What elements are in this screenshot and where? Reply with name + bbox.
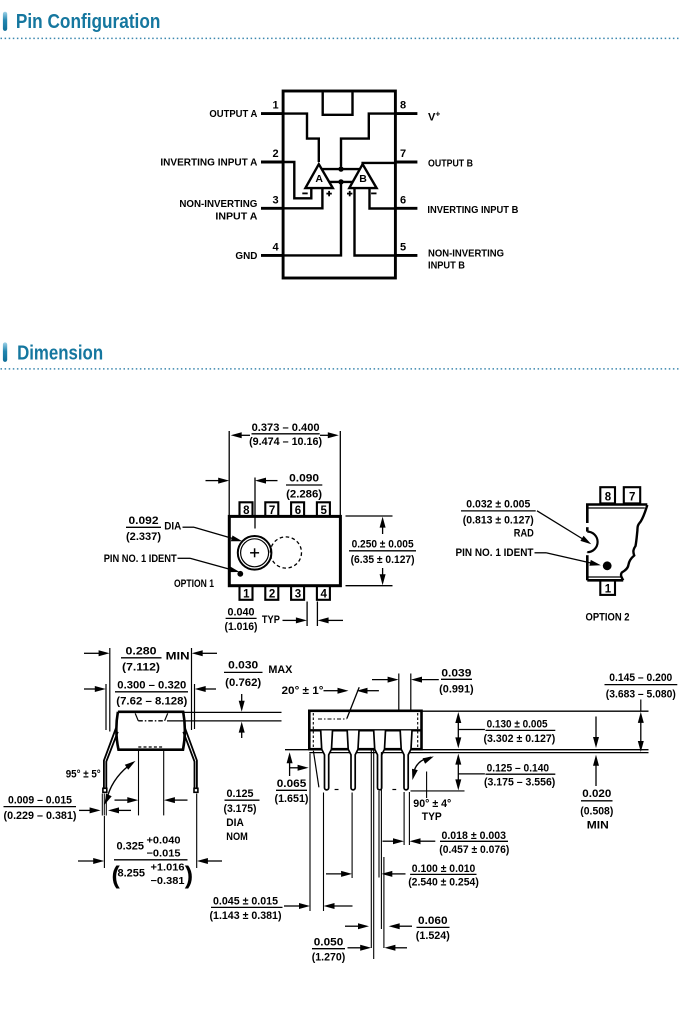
svg-text:A: A	[315, 173, 323, 185]
svg-text:−0.381: −0.381	[151, 876, 185, 887]
svg-text:Pin Configuration: Pin Configuration	[16, 10, 161, 33]
svg-text:7: 7	[629, 491, 635, 503]
svg-text:PIN NO. 1 IDENT: PIN NO. 1 IDENT	[104, 553, 177, 565]
svg-text:B: B	[359, 173, 367, 185]
svg-text:(1.524): (1.524)	[416, 930, 450, 942]
svg-text:GND: GND	[235, 251, 257, 262]
svg-text:DIA: DIA	[226, 817, 244, 829]
svg-text:0.009 – 0.015: 0.009 – 0.015	[8, 795, 72, 807]
svg-text:3: 3	[295, 589, 301, 601]
svg-text:Dimension: Dimension	[17, 342, 103, 365]
svg-text:7: 7	[400, 148, 406, 160]
svg-text:(3.175 – 3.556): (3.175 – 3.556)	[484, 776, 556, 788]
svg-text:DIA: DIA	[164, 521, 181, 533]
svg-text:+0.040: +0.040	[147, 836, 181, 847]
svg-text:V+: V+	[428, 109, 440, 124]
svg-text:2: 2	[269, 589, 275, 601]
svg-text:(2.540 ± 0.254): (2.540 ± 0.254)	[408, 877, 479, 889]
svg-text:(1.143 ± 0.381): (1.143 ± 0.381)	[210, 910, 282, 922]
svg-text:−0.015: −0.015	[147, 849, 181, 860]
svg-text:MIN: MIN	[587, 820, 609, 832]
svg-text:MAX: MAX	[268, 664, 293, 676]
svg-text:0.090: 0.090	[289, 472, 319, 484]
svg-text:TYP: TYP	[422, 811, 442, 823]
svg-text:0.039: 0.039	[441, 668, 471, 680]
svg-text:(0.762): (0.762)	[225, 677, 261, 689]
svg-text:1: 1	[243, 589, 250, 601]
svg-text:0.125: 0.125	[227, 788, 254, 800]
svg-text:INPUT A: INPUT A	[215, 211, 258, 222]
svg-text:0.130 ± 0.005: 0.130 ± 0.005	[487, 718, 548, 730]
svg-text:0.373 – 0.400: 0.373 – 0.400	[252, 422, 320, 434]
svg-text:OPTION 1: OPTION 1	[174, 578, 214, 590]
svg-text:+1.016: +1.016	[151, 863, 185, 874]
svg-text:(3.302 ± 0.127): (3.302 ± 0.127)	[484, 733, 556, 745]
svg-text:0.018 ± 0.003: 0.018 ± 0.003	[442, 830, 507, 842]
svg-text:90° ± 4°: 90° ± 4°	[413, 798, 451, 810]
svg-text:(0.991): (0.991)	[439, 683, 474, 695]
svg-text:(2.286): (2.286)	[286, 489, 322, 501]
svg-text:NOM: NOM	[226, 831, 248, 843]
svg-text:8: 8	[605, 491, 612, 503]
svg-text:0.145 – 0.200: 0.145 – 0.200	[609, 672, 672, 684]
svg-text:(3.683 – 5.080): (3.683 – 5.080)	[606, 689, 676, 701]
svg-text:(0.813 ± 0.127): (0.813 ± 0.127)	[463, 515, 534, 527]
svg-text:1: 1	[605, 583, 612, 595]
svg-text:(7.112): (7.112)	[122, 662, 160, 674]
svg-text:0.032 ± 0.005: 0.032 ± 0.005	[466, 499, 530, 511]
svg-text:INPUT B: INPUT B	[428, 261, 465, 272]
svg-text:(1.651): (1.651)	[275, 793, 309, 805]
svg-text:(0.457 ± 0.076): (0.457 ± 0.076)	[439, 844, 509, 856]
svg-text:7: 7	[269, 505, 275, 517]
svg-text:INVERTING INPUT A: INVERTING INPUT A	[160, 158, 258, 169]
svg-text:0.100 ± 0.010: 0.100 ± 0.010	[412, 863, 476, 875]
svg-text:): )	[185, 862, 193, 890]
svg-text:6: 6	[295, 505, 301, 517]
svg-text:0.300 – 0.320: 0.300 – 0.320	[117, 679, 186, 691]
svg-text:8.255: 8.255	[118, 868, 146, 880]
svg-text:0.065: 0.065	[277, 778, 307, 790]
svg-text:6: 6	[400, 194, 406, 206]
svg-text:2: 2	[272, 148, 278, 160]
svg-text:NON-INVERTING: NON-INVERTING	[428, 248, 504, 259]
svg-text:(7.62 – 8.128): (7.62 – 8.128)	[116, 695, 187, 707]
svg-text:PIN NO. 1 IDENT: PIN NO. 1 IDENT	[456, 547, 534, 559]
svg-text:(3.175): (3.175)	[224, 803, 257, 815]
svg-text:0.250 ± 0.005: 0.250 ± 0.005	[352, 539, 414, 551]
svg-text:5: 5	[400, 241, 406, 253]
svg-text:0.040: 0.040	[228, 607, 255, 619]
svg-text:0.045 ± 0.015: 0.045 ± 0.015	[213, 895, 278, 907]
svg-text:5: 5	[320, 505, 327, 517]
svg-text:OUTPUT A: OUTPUT A	[209, 109, 258, 120]
svg-text:NON-INVERTING: NON-INVERTING	[179, 199, 257, 210]
svg-text:(1.270): (1.270)	[312, 951, 346, 963]
svg-text:8: 8	[243, 505, 250, 517]
svg-text:20° ± 1°: 20° ± 1°	[282, 685, 324, 697]
svg-text:(6.35 ± 0.127): (6.35 ± 0.127)	[351, 554, 415, 566]
svg-text:INVERTING INPUT B: INVERTING INPUT B	[427, 205, 518, 216]
svg-text:3: 3	[272, 194, 278, 206]
svg-text:0.325: 0.325	[117, 841, 145, 853]
svg-text:(0.508): (0.508)	[580, 806, 613, 818]
svg-text:95° ± 5°: 95° ± 5°	[66, 769, 101, 781]
svg-text:OUTPUT B: OUTPUT B	[428, 159, 473, 170]
svg-text:(1.016): (1.016)	[225, 621, 258, 633]
svg-text:0.050: 0.050	[314, 937, 344, 949]
svg-text:0.020: 0.020	[582, 788, 611, 800]
svg-text:0.280: 0.280	[126, 646, 157, 658]
svg-text:4: 4	[320, 589, 327, 601]
svg-text:(9.474 – 10.16): (9.474 – 10.16)	[249, 436, 322, 448]
svg-text:(2.337): (2.337)	[126, 531, 161, 543]
svg-text:(0.229 – 0.381): (0.229 – 0.381)	[4, 810, 77, 822]
svg-text:0.092: 0.092	[129, 515, 159, 527]
svg-text:8: 8	[400, 100, 406, 112]
svg-text:OPTION 2: OPTION 2	[586, 612, 630, 624]
svg-text:4: 4	[272, 241, 279, 253]
svg-text:0.060: 0.060	[418, 915, 448, 927]
svg-text:0.125 – 0.140: 0.125 – 0.140	[487, 762, 549, 774]
svg-text:TYP: TYP	[262, 614, 280, 626]
svg-text:RAD: RAD	[514, 528, 534, 540]
svg-text:MIN: MIN	[166, 651, 190, 663]
svg-text:1: 1	[272, 100, 278, 112]
svg-text:0.030: 0.030	[228, 660, 258, 672]
